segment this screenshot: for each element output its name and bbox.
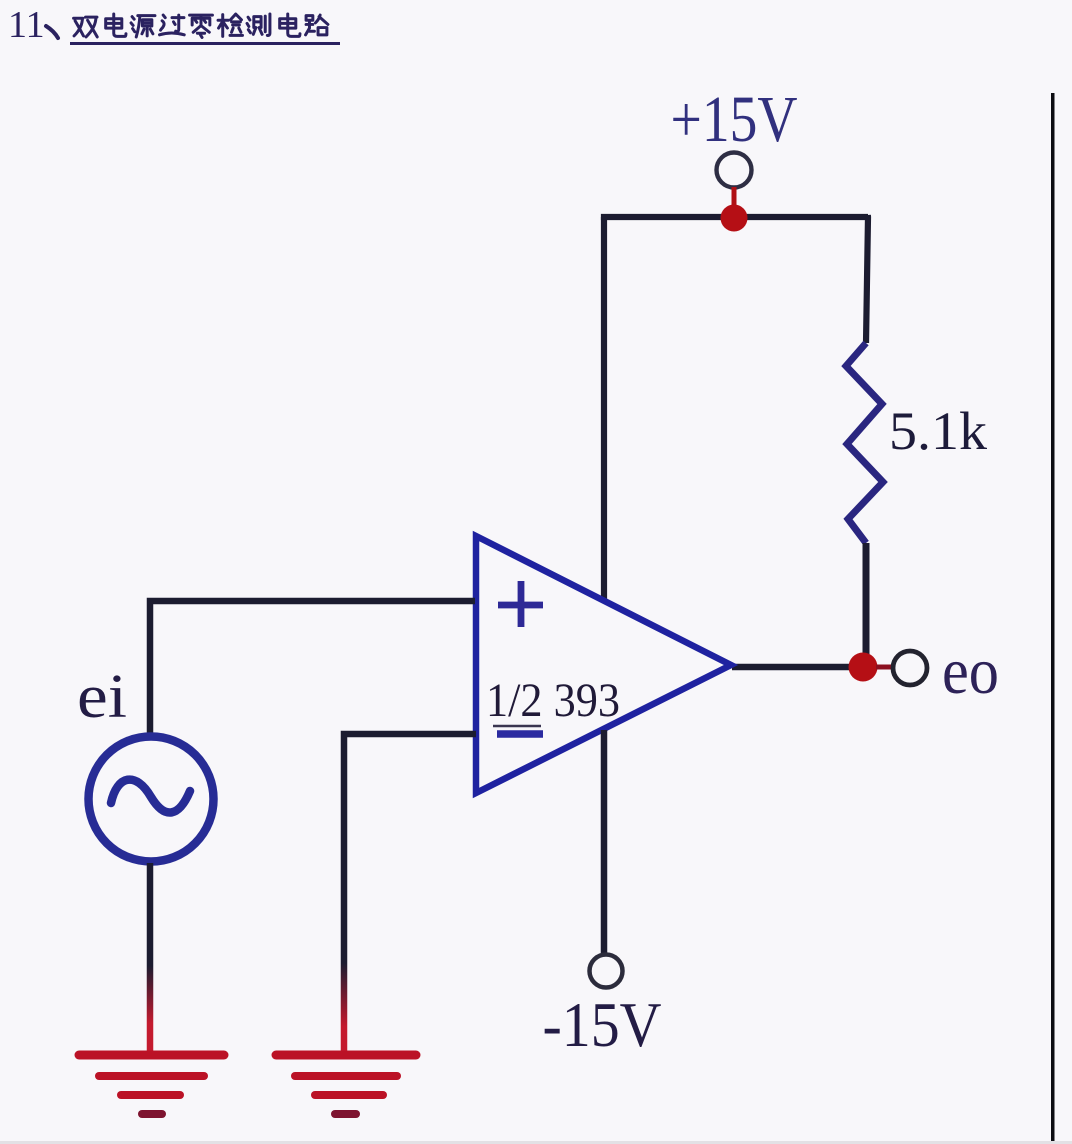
wire noninverting input bbox=[150, 601, 475, 735]
op-amp plus input marker bbox=[498, 581, 543, 627]
wire op-amp V+ supply bbox=[601, 217, 607, 600]
char 电 bbox=[280, 14, 300, 36]
wire red stub to eo terminal bbox=[876, 665, 893, 670]
svg-text:eo: eo bbox=[942, 635, 999, 708]
title text "11、双电源过零检测电路" bbox=[8, 4, 328, 46]
wire inverting input to ground bbox=[344, 734, 476, 1052]
ground left bbox=[79, 1055, 224, 1114]
wire op-amp V- supply bbox=[601, 730, 608, 953]
junction top bbox=[721, 205, 748, 232]
svg-text:1/2 393: 1/2 393 bbox=[486, 674, 620, 727]
ground right bbox=[276, 1055, 416, 1114]
char 零 bbox=[190, 15, 213, 37]
wire source to ground bbox=[147, 863, 154, 1052]
junction output bbox=[849, 653, 878, 682]
op-amp minus input marker bbox=[493, 725, 541, 728]
char 电 bbox=[106, 14, 126, 36]
svg-text:11: 11 bbox=[8, 4, 45, 46]
wire top rail bbox=[601, 214, 868, 220]
terminal -15V bbox=[590, 955, 623, 988]
title underline bbox=[70, 42, 340, 45]
source ei circle bbox=[89, 737, 214, 862]
char 路 bbox=[306, 15, 328, 35]
wire red stub below +15V terminal bbox=[732, 187, 737, 208]
svg-text:+15V: +15V bbox=[671, 83, 798, 156]
wire op-amp output bbox=[732, 664, 852, 671]
terminal +15V bbox=[717, 153, 752, 188]
resistor R 5.1k bbox=[846, 343, 883, 543]
terminal eo bbox=[893, 651, 927, 685]
char 测 bbox=[247, 14, 270, 35]
op-amp U1 bbox=[476, 536, 731, 793]
wire resistor to output junction bbox=[863, 543, 870, 660]
svg-text:ei: ei bbox=[77, 663, 127, 731]
char 过 bbox=[160, 15, 185, 35]
char 检 bbox=[218, 14, 242, 36]
svg-text:-15V: -15V bbox=[543, 989, 662, 1060]
source ei sine bbox=[111, 780, 190, 813]
char 源 bbox=[131, 16, 155, 37]
svg-text:5.1k: 5.1k bbox=[889, 401, 987, 461]
char 双 bbox=[74, 17, 98, 37]
wire rail to resistor bbox=[866, 215, 868, 343]
